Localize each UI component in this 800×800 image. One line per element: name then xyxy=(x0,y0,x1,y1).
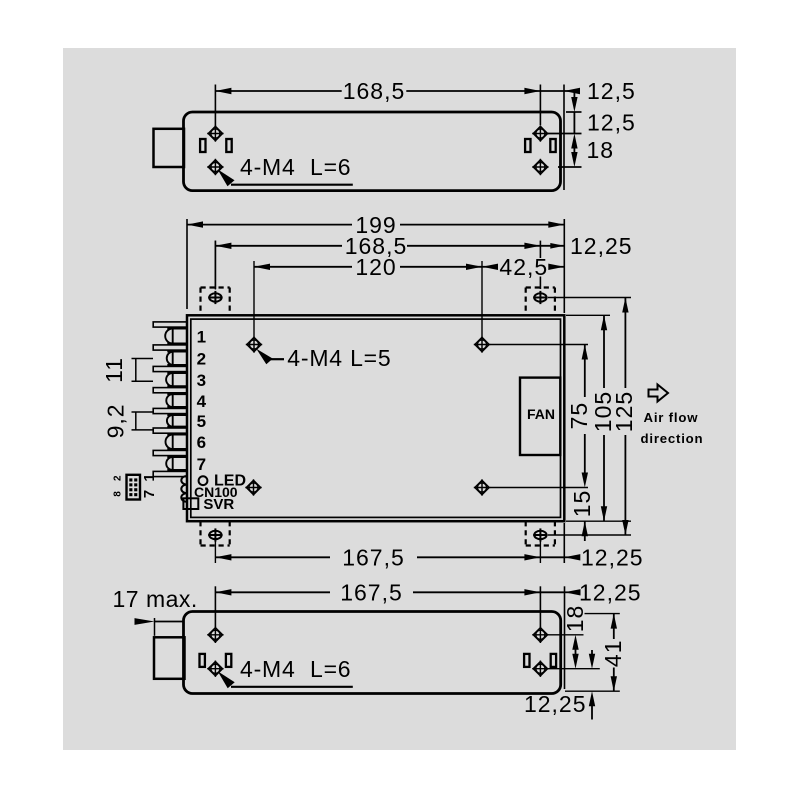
svg-text:12,25: 12,25 xyxy=(570,233,633,259)
label 4-M4 L=5 leader arrow xyxy=(256,349,273,364)
svg-text:4-M4 L=6: 4-M4 L=6 xyxy=(240,656,351,682)
top view slot right-b xyxy=(550,139,555,152)
svg-text:Air flow: Air flow xyxy=(644,410,699,425)
svg-text:75: 75 xyxy=(566,402,592,430)
bottom view ext hole row 1 xyxy=(548,634,583,636)
middle view chassis outer outline xyxy=(187,315,564,521)
top view ext line hole row 2 xyxy=(558,166,582,168)
bottom view ext chassis bottom xyxy=(565,690,620,692)
middle view tab hole top-left xyxy=(209,293,221,301)
dim 168,5 mid extension left xyxy=(214,241,216,289)
bottom view label 4-M4 L=6 leader arrow xyxy=(218,671,235,688)
svg-text:4-M4 L=6: 4-M4 L=6 xyxy=(240,154,351,180)
LED indicator circle xyxy=(199,476,208,485)
mid dim 12,25 bottom xyxy=(540,556,564,558)
bottom view left protrusion xyxy=(154,637,185,679)
top view dim 168,5 extension line left xyxy=(214,85,216,127)
bottom view ext hole row 2 xyxy=(548,668,600,670)
middle view tab hole row line top xyxy=(548,297,631,299)
17 max pointer arrow xyxy=(135,618,155,625)
bottom view dim 18 xyxy=(572,635,578,650)
dim 168,5 mid line xyxy=(215,245,342,247)
svg-text:11: 11 xyxy=(101,357,127,383)
svg-text:18: 18 xyxy=(587,137,615,163)
middle view mounting tab top-right xyxy=(526,286,555,288)
svg-text:120: 120 xyxy=(355,254,396,280)
bottom view mounting hole top-left xyxy=(211,630,220,639)
svg-text:15: 15 xyxy=(569,490,595,518)
middle view tab hole bottom-right xyxy=(534,531,546,539)
middle view chassis inner outline xyxy=(191,319,561,517)
terminal block with 7 screw terminals xyxy=(153,322,187,327)
dim 199 extension line right xyxy=(563,219,565,313)
dim 15 xyxy=(582,521,588,536)
dim 199 line xyxy=(187,224,352,226)
top view mounting hole top-right xyxy=(536,129,545,138)
middle view tab hole row line bottom xyxy=(548,534,631,536)
top view mounting hole bottom-right xyxy=(536,162,545,171)
middle view tab hole bottom-right center line xyxy=(539,540,541,563)
top view slot left-a xyxy=(200,139,205,152)
top view slot right-a xyxy=(525,139,530,152)
svg-text:125: 125 xyxy=(611,391,637,432)
top view dim 12,5 horizontal xyxy=(540,90,564,92)
svg-text:5: 5 xyxy=(197,412,206,431)
bottom view mounting hole bottom-left xyxy=(211,664,220,673)
mid ext chassis right bottom xyxy=(563,523,565,563)
bottom view dim 12,25 top xyxy=(540,591,564,593)
svg-text:1: 1 xyxy=(197,327,206,346)
bottom view mounting hole bottom-right xyxy=(536,664,545,673)
dim 120 extension left xyxy=(253,261,255,337)
top view dim 18 xyxy=(571,134,577,149)
svg-text:12,5: 12,5 xyxy=(587,78,636,104)
svg-text:7: 7 xyxy=(197,455,206,474)
middle view tab hole bottom-left center line xyxy=(214,540,216,563)
bottom view ext chassis top xyxy=(585,613,620,615)
svg-text:8: 8 xyxy=(113,491,124,497)
svg-text:2: 2 xyxy=(197,350,206,369)
middle view mounting tab bottom-left xyxy=(201,544,230,546)
dim 11 terminal pitch xyxy=(132,358,154,360)
dim 42,5 line xyxy=(482,266,496,268)
svg-text:12,25: 12,25 xyxy=(581,545,644,571)
middle view screw hole top-right xyxy=(477,340,486,349)
ext line chassis top right xyxy=(566,314,610,316)
svg-text:2: 2 xyxy=(113,475,124,481)
bottom view slot right-b xyxy=(551,654,556,667)
dim 9,2 terminal pitch xyxy=(132,411,154,413)
middle view tab hole top-right xyxy=(534,293,546,301)
svg-text:6: 6 xyxy=(197,433,206,452)
bottom view dim 167,5 ext right xyxy=(539,586,541,628)
dim 125 xyxy=(622,298,628,313)
top view mounting hole bottom-left xyxy=(211,162,220,171)
svg-text:4: 4 xyxy=(197,392,207,411)
middle view screw hole row line top xyxy=(490,344,588,346)
bottom view mounting hole top-right xyxy=(536,630,545,639)
top view ext line hole row 1 xyxy=(546,133,582,135)
bottom view dim 12,25 bottom xyxy=(591,650,593,655)
dim 105 xyxy=(601,315,607,330)
top view dim 168,5 extension line right xyxy=(539,85,541,126)
bottom view slot left-b xyxy=(226,654,231,667)
middle view screw hole row line bottom xyxy=(490,487,588,489)
dim 168,5 mid extension right xyxy=(539,241,541,258)
middle view screw hole top-left xyxy=(249,340,258,349)
top view slot left-b xyxy=(226,139,231,152)
svg-text:1: 1 xyxy=(141,473,158,481)
middle view screw hole bottom-left xyxy=(249,483,258,492)
middle view mounting tab top-left xyxy=(201,286,230,288)
dim 75 xyxy=(582,345,588,360)
CN100 pin header connector xyxy=(127,475,141,500)
middle view tab hole top-left center line xyxy=(214,241,216,290)
air flow direction arrow icon xyxy=(649,385,669,402)
svg-text:SVR: SVR xyxy=(203,496,234,513)
svg-text:167,5: 167,5 xyxy=(342,545,405,571)
top view mounting hole top-left xyxy=(211,129,220,138)
bottom view chassis outline xyxy=(184,612,561,694)
bottom view dim 41 xyxy=(611,614,617,629)
SVR access notch xyxy=(183,498,198,509)
bottom view dim 167,5 line xyxy=(215,591,330,593)
middle view screw hole bottom-right xyxy=(477,483,486,492)
mid dim 167,5 line xyxy=(215,556,330,558)
svg-text:12,5: 12,5 xyxy=(587,110,636,136)
dim 12,25 top arrows xyxy=(540,245,564,247)
top view left protrusion xyxy=(154,129,185,167)
svg-text:18: 18 xyxy=(562,605,588,633)
top view dim 12,5 vertical xyxy=(573,91,575,99)
bottom view slot right-a xyxy=(524,654,529,667)
dim 120 line xyxy=(254,266,352,268)
svg-text:12,25: 12,25 xyxy=(579,580,642,606)
top view chassis outline xyxy=(184,112,561,191)
fan box xyxy=(520,378,560,455)
svg-text:7: 7 xyxy=(141,490,158,498)
top view label 4-M4 L=6 leader arrow xyxy=(218,169,235,186)
middle view tab hole bottom-left xyxy=(209,531,221,539)
svg-text:41: 41 xyxy=(600,640,626,668)
svg-text:FAN: FAN xyxy=(527,406,555,422)
dim 199 extension line left xyxy=(186,219,188,309)
top view right edge extension line xyxy=(563,85,565,191)
svg-text:17 max.: 17 max. xyxy=(113,586,198,612)
top view dim 168,5 line xyxy=(215,90,341,92)
svg-text:42,5: 42,5 xyxy=(499,254,548,280)
bottom view right edge ext line xyxy=(564,586,566,689)
ext line chassis bottom right xyxy=(566,520,631,522)
bottom view slot left-a xyxy=(200,654,205,667)
svg-text:direction: direction xyxy=(641,431,704,446)
dim 120 extension right xyxy=(481,261,483,337)
bottom view dim 167,5 ext left xyxy=(214,586,216,628)
svg-text:3: 3 xyxy=(197,371,206,390)
svg-text:9,2: 9,2 xyxy=(102,403,128,438)
svg-text:168,5: 168,5 xyxy=(343,78,406,104)
svg-text:4-M4 L=5: 4-M4 L=5 xyxy=(287,345,391,371)
svg-text:12,25: 12,25 xyxy=(524,691,587,717)
svg-text:167,5: 167,5 xyxy=(340,580,403,606)
chassis edge break squiggle xyxy=(181,476,187,502)
middle view mounting tab bottom-right xyxy=(526,544,555,546)
top view ext line chassis top xyxy=(566,111,582,113)
